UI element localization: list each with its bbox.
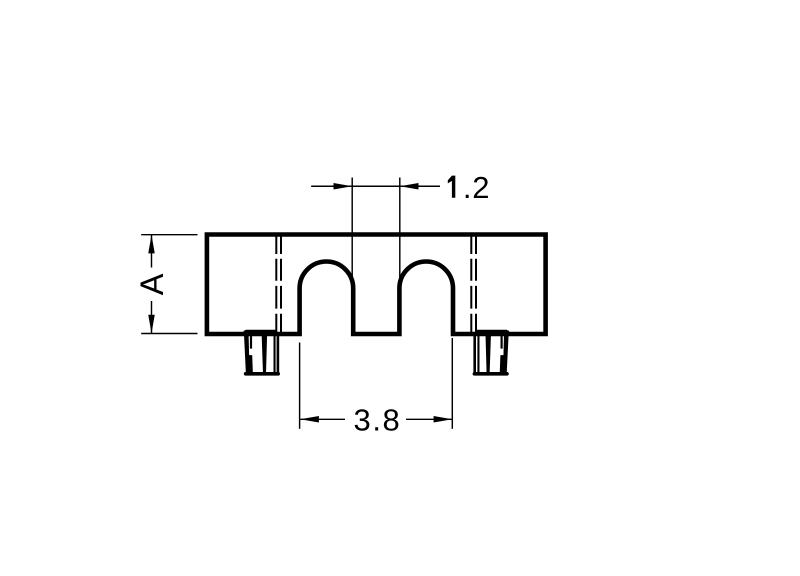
- hidden line pair right: [470, 234, 472, 334]
- arrowhead bottom (pointing down): [148, 315, 155, 334]
- dimension line left segment: [300, 418, 345, 420]
- inner jog merged band lower: [248, 355, 253, 374]
- left foot: [240, 330, 279, 374]
- hidden line pair left: [275, 234, 277, 334]
- dimension 3.8 (bottom): [300, 338, 453, 429]
- inner jog line upper: [250, 335, 252, 349]
- outer left tapered edge: [244, 331, 250, 374]
- outer right edge: [277, 334, 280, 374]
- part body outline with two U-notches: [207, 235, 546, 335]
- extension line right: [399, 178, 401, 282]
- text 1.2 : digit 1 drawn as path (no foot serif): [448, 176, 456, 198]
- extension line left: [299, 343, 301, 429]
- inner right line: [274, 335, 276, 374]
- svg-text:.2: .2: [463, 170, 490, 205]
- dimension 1.2 (top): [311, 178, 440, 282]
- arrowhead left (pointing left): [300, 416, 319, 423]
- dimension line lower segment: [151, 301, 153, 334]
- svg-text:3.8: 3.8: [354, 402, 402, 437]
- dimension line upper segment: [151, 235, 153, 268]
- right foot: [473, 330, 512, 374]
- inner left line: [477, 335, 479, 374]
- svg-text:A: A: [134, 273, 170, 295]
- arrowhead top (pointing up): [148, 235, 155, 254]
- outer left edge: [473, 334, 476, 374]
- inner jog merged band lower: [500, 355, 505, 374]
- extension line right: [451, 338, 453, 429]
- extension line bottom: [141, 333, 197, 335]
- dimension A (left): [141, 235, 197, 334]
- outer right tapered edge: [503, 331, 509, 374]
- bottom bar: [474, 372, 507, 376]
- middle tapered bar: [485, 331, 491, 374]
- collar with chamfer (top-left): [240, 330, 277, 335]
- dimension line: [311, 185, 440, 187]
- inner jog line upper: [501, 335, 503, 349]
- arrowhead right (pointing right): [434, 416, 453, 423]
- middle tapered bar: [262, 331, 268, 374]
- collar with chamfer (top-right): [476, 330, 513, 335]
- extension line top: [141, 234, 197, 236]
- bottom bar: [246, 372, 279, 376]
- arrowhead left (pointing right): [334, 183, 353, 190]
- arrowhead right (pointing left): [400, 183, 419, 190]
- dimension line right segment: [406, 418, 452, 420]
- extension line left: [351, 178, 353, 282]
